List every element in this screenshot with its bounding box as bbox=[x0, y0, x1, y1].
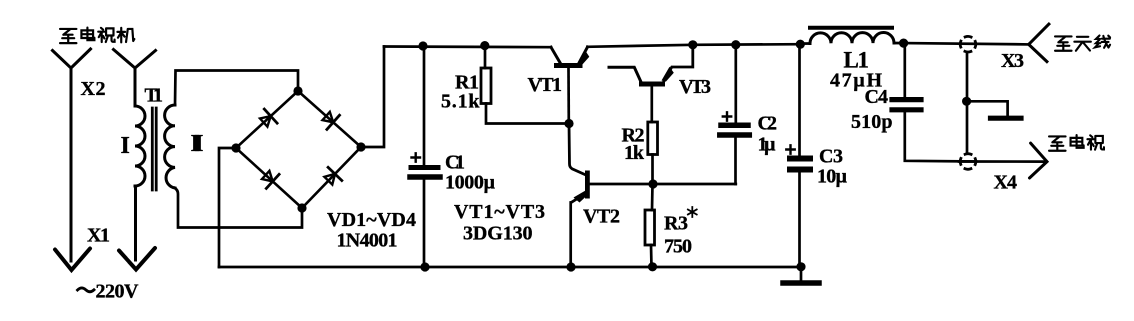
transistor VT3 emitter lead with arrow to rail bbox=[664, 45, 693, 82]
svg-text:VT1: VT1 bbox=[528, 74, 563, 96]
svg-text:VT1~VT3: VT1~VT3 bbox=[454, 201, 545, 223]
transistor VT2 emitter lead with arrow bbox=[572, 194, 586, 203]
svg-text:510p: 510p bbox=[851, 111, 893, 133]
capacitor C3 polarity plus bbox=[786, 145, 794, 153]
svg-text:C1: C1 bbox=[445, 152, 465, 174]
svg-text:X1: X1 bbox=[87, 225, 110, 247]
svg-text:1µ: 1µ bbox=[758, 134, 776, 156]
transistor VT1 emitter lead with arrow bbox=[579, 47, 588, 63]
connector X2 arrowhead bbox=[55, 249, 90, 271]
capacitor C3 plates bbox=[790, 156, 810, 162]
label ~ of ~220V bbox=[78, 288, 95, 292]
capacitor C2 polarity plus bbox=[723, 112, 731, 120]
wire secondary top to bridge top node bbox=[175, 71, 298, 106]
node C2 top on rail bbox=[731, 40, 740, 49]
transformer T1 core bbox=[151, 108, 154, 190]
wire X4 output with arrow to TV bbox=[959, 160, 1045, 163]
node bridge bottom bbox=[297, 203, 306, 212]
node C1 top on rail bbox=[418, 41, 427, 50]
transformer T1 primary fork (X1 side) bbox=[114, 50, 156, 107]
node bridge top bbox=[293, 86, 302, 95]
capacitor C4 top lead bbox=[903, 43, 906, 97]
wire bridge left node to bottom rail bbox=[219, 148, 236, 267]
capacitor C1 polarity plus bbox=[412, 153, 421, 161]
resistor R3 bottom lead bbox=[650, 245, 653, 267]
svg-text:10µ: 10µ bbox=[817, 166, 847, 188]
resistor R3 top lead bbox=[651, 184, 654, 210]
node C1 bottom on rail bbox=[420, 262, 429, 271]
inductor L1 core bar bbox=[810, 26, 892, 30]
node bottom rail right end bbox=[796, 262, 805, 271]
node VT3 emitter on top rail bbox=[688, 40, 697, 49]
connector X3 dashed circle bbox=[960, 36, 976, 52]
antenna fork at X3 bbox=[1029, 24, 1049, 62]
label R3 asterisk bbox=[688, 207, 697, 217]
node X3/X4 tap bbox=[962, 97, 971, 106]
svg-text:C4: C4 bbox=[865, 86, 889, 108]
node R1 top on rail bbox=[480, 41, 489, 50]
svg-text:VD1~VD4: VD1~VD4 bbox=[327, 209, 416, 231]
resistor R1 body bbox=[481, 68, 491, 104]
wire primary bottom lead bbox=[134, 186, 137, 260]
arrowhead X1 bbox=[119, 248, 155, 270]
svg-text:VT2: VT2 bbox=[583, 206, 620, 228]
svg-text:R3: R3 bbox=[664, 213, 688, 235]
node bridge right bbox=[356, 142, 365, 151]
transistor VT1 base lead down bbox=[567, 68, 570, 124]
diode VD1 bbox=[236, 91, 298, 148]
svg-text:1k: 1k bbox=[624, 142, 645, 164]
svg-text:X4: X4 bbox=[994, 172, 1018, 194]
capacitor C1 plates bbox=[411, 165, 438, 170]
resistor R1 leads bbox=[485, 46, 569, 124]
label 至电视 (to TV) bbox=[1049, 135, 1104, 151]
capacitor C2 plates bbox=[721, 123, 748, 129]
transistor VT3 collector lead (open, to left) bbox=[609, 67, 641, 81]
svg-text:220V: 220V bbox=[96, 281, 140, 303]
capacitor C3 bottom lead bbox=[798, 173, 801, 268]
resistor R2 body bbox=[648, 122, 658, 155]
capacitor C2 top lead bbox=[734, 45, 737, 123]
capacitor C4 plates bbox=[892, 97, 921, 102]
transformer T1 primary winding I bbox=[135, 106, 145, 186]
node bridge left bbox=[231, 143, 240, 152]
svg-text:3DG130: 3DG130 bbox=[463, 223, 533, 245]
node L1 right / C4 top on rail bbox=[899, 39, 908, 48]
ground symbol right (coax shield) bbox=[967, 101, 1008, 116]
connector X2 antenna fork bbox=[53, 49, 91, 261]
svg-text:X3: X3 bbox=[1001, 50, 1024, 72]
wire top rail right section (regulated output) bbox=[588, 44, 801, 47]
label 至天线 (to antenna) bbox=[1055, 35, 1110, 50]
resistor R3 body bbox=[645, 210, 655, 245]
node R1/VT1 base/VT2 collector junction bbox=[564, 119, 573, 128]
svg-text:1000µ: 1000µ bbox=[445, 171, 495, 193]
svg-text:T1: T1 bbox=[145, 85, 164, 107]
wire bottom rail (ground bus) bbox=[219, 266, 801, 269]
node R2/R3/VT2 base/C2 junction bbox=[648, 179, 657, 188]
node R3 bottom on rail bbox=[648, 262, 657, 271]
wire secondary bottom to bridge bottom node bbox=[175, 188, 302, 228]
svg-text:I: I bbox=[121, 133, 130, 159]
wire bridge right node to top rail bbox=[361, 47, 384, 148]
resistor R2 bottom lead bbox=[651, 155, 654, 185]
capacitor C2 bottom lead bbox=[734, 138, 737, 184]
svg-text:VT3: VT3 bbox=[679, 76, 711, 98]
node C3 top on rail bbox=[796, 40, 805, 49]
wire rail L1 right to X3 bbox=[904, 43, 1029, 44]
inductor L1 winding bbox=[800, 42, 903, 45]
diode VD4 bbox=[302, 147, 361, 208]
node VT2 emitter on bottom rail bbox=[566, 262, 575, 271]
transformer T1 secondary winding II bbox=[165, 105, 175, 188]
connector X4 dashed circle bbox=[960, 154, 976, 170]
svg-text:1N4001: 1N4001 bbox=[337, 230, 398, 252]
transistor VT2 base bar bbox=[585, 171, 590, 199]
capacitor C4 bottom lead bbox=[905, 112, 976, 161]
transistor VT3 base bar bbox=[639, 82, 665, 87]
wire top rail left section (raw DC) bbox=[384, 45, 551, 48]
transistor VT2 collector lead up bbox=[569, 124, 586, 175]
capacitor C3 top lead bbox=[798, 44, 801, 155]
wire VT2 emitter to bottom rail bbox=[569, 203, 572, 268]
svg-text:X2: X2 bbox=[81, 78, 106, 100]
wire X3 to X4 vertical bbox=[966, 52, 969, 153]
capacitor C1 leads bbox=[423, 46, 426, 267]
label 至电视机 (to TV set) top left bbox=[60, 28, 134, 43]
svg-text:II: II bbox=[191, 131, 204, 157]
ground symbol at bottom rail bbox=[800, 267, 803, 281]
resistor R2 lead from VT3 base bbox=[650, 87, 653, 123]
svg-text:C3: C3 bbox=[819, 146, 843, 168]
transistor VT1 collector lead bbox=[551, 47, 561, 63]
svg-text:C2: C2 bbox=[758, 113, 778, 135]
diode VD2 bbox=[298, 91, 361, 147]
diode VD3 bbox=[236, 148, 302, 208]
wire VT2 base to R2/R3 junction and C2 bbox=[590, 183, 736, 186]
svg-text:750: 750 bbox=[664, 236, 692, 258]
transistor VT1 base bar bbox=[554, 63, 583, 68]
svg-text:5.1k: 5.1k bbox=[441, 91, 480, 113]
